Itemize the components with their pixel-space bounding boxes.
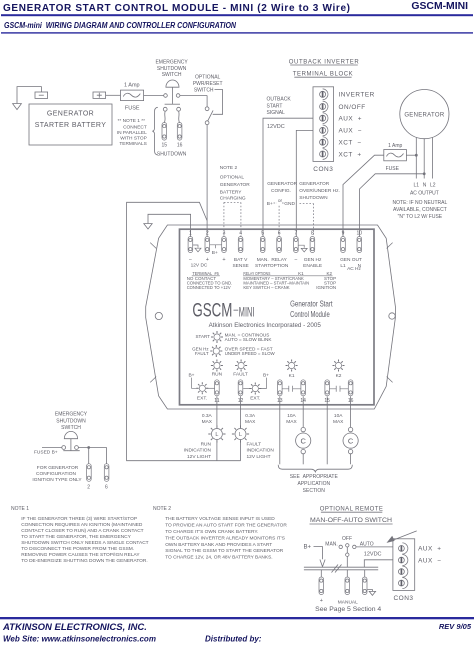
svg-text:KEY SWITCH – CRANK: KEY SWITCH – CRANK [243,285,289,290]
svg-text:SHUTDOWN: SHUTDOWN [157,66,187,72]
wire fuse to emergency shutdown switch [144,95,164,97]
svg-text:AUX +: AUX + [339,116,362,123]
svg-text:1: 1 [189,231,192,237]
K1 led [286,360,298,372]
svg-text:FAULT: FAULT [247,441,262,447]
terminal 12 [238,380,243,396]
left mounting hole [155,312,162,319]
svg-text:MANUAL: MANUAL [338,600,358,606]
svg-text:GSCM-MINI: GSCM-MINI [411,1,468,12]
pin ground symbol [367,590,375,596]
svg-text:−: − [294,258,297,264]
svg-text:TO START THE GENERATOR, THE EM: TO START THE GENERATOR, THE EMERGENCY [21,534,131,540]
svg-text:B+: B+ [267,201,273,207]
svg-text:MAX: MAX [202,419,213,425]
junction dot [87,446,90,449]
svg-text:1 Amp: 1 Amp [388,143,402,149]
svg-text:TO CHARGE 12V, 24, OR 48V BATT: TO CHARGE 12V, 24, OR 48V BATTERY BANKS. [165,555,272,561]
brace see application [278,465,352,472]
junction dot L1/fuse [415,154,418,157]
outback start signal label [267,97,292,116]
svg-text:FUSED B+: FUSED B+ [34,450,58,456]
terminal 14 [301,380,306,396]
dashed ticks around or [274,202,285,204]
svg-text:C: C [300,437,306,446]
svg-text:1 Amp: 1 Amp [124,83,140,89]
svg-text:SECTION: SECTION [303,488,326,494]
fault indication text [247,441,275,460]
svg-text:OPTIONAL REMOTE: OPTIONAL REMOTE [320,507,383,513]
svg-text:CON3: CON3 [393,595,413,602]
terminal 11 [215,380,220,396]
ground bus to terminal 1 [144,214,191,236]
note if no neutral text [393,200,448,220]
K2 led [333,360,345,372]
wiring bus double line [304,565,378,573]
generator output wires L1 N L2 [416,137,432,178]
svg-text:MAX: MAX [333,419,344,425]
terminal 4 [238,237,243,253]
svg-text:CONTACT CLOSER TO RUN) AND A C: CONTACT CLOSER TO RUN) AND A CRANK CONTA… [21,528,143,534]
svg-text:SHUTDOWN: SHUTDOWN [157,151,187,157]
wire terminal 15 down [326,396,328,464]
terminal 3 [222,237,227,253]
terminal pin manual [345,577,350,595]
run indicator lamp L1 [208,425,225,442]
fused B+ wire [42,447,62,449]
svg-text:MAN-OFF-AUTO SWITCH: MAN-OFF-AUTO SWITCH [310,518,392,524]
wire ext led to terminal 11 [206,387,215,389]
svg-text:L1: L1 [340,263,346,269]
svg-text:4: 4 [239,231,242,237]
terminal pin 6 [104,464,109,482]
CON3 pin 6 XCT + [320,151,326,157]
svg-text:5: 5 [261,231,264,237]
svg-text:IN PARALLEL: IN PARALLEL [117,130,147,136]
svg-text:WITH STOP: WITH STOP [120,136,147,142]
svg-text:Control Module: Control Module [290,309,330,319]
svg-text:MAX: MAX [286,419,297,425]
svg-text:EXT.: EXT. [250,396,260,402]
svg-text:OPTION: OPTION [270,263,289,269]
svg-text:L1: L1 [414,183,420,189]
svg-text:16: 16 [177,143,183,149]
CON3 pin 3 AUX + [320,115,326,121]
svg-text:GEN Hz: GEN Hz [304,257,322,263]
svg-text:CONNECTED TO +12V: CONNECTED TO +12V [187,285,231,290]
CON3 pin 2 ON/OFF [320,104,326,110]
svg-text:NOTE 2: NOTE 2 [220,165,238,171]
terminal 7 internal ground [298,245,307,252]
connector CON3 (remote) [393,539,415,591]
terminal 7 [294,237,299,253]
svg-text:NOTE 2: NOTE 2 [153,506,171,512]
svg-text:BATTERY: BATTERY [220,189,242,195]
svg-text:GSCM-mini WIRING DIAGRAM AND: GSCM-mini WIRING DIAGRAM AND CONTROLLER … [4,21,236,30]
svg-text:TO PROVIDE AN AUTO START FOR T: TO PROVIDE AN AUTO START FOR THE GENERAT… [165,523,287,529]
wire N to terminal 10 [360,174,425,237]
svg-text:FAULT: FAULT [195,351,209,356]
relay options table [192,271,332,276]
svg-text:L2: L2 [430,183,436,189]
svg-text:NOTE 1: NOTE 1 [11,506,29,512]
wire fuse to L1 [406,154,416,156]
EXT led (fault) [249,383,261,395]
terminal 5 [260,237,265,253]
generator start control module text [290,299,333,320]
svg-text:GSCM: GSCM [192,300,232,322]
generator G1 [400,90,449,139]
svg-text:TERMINALS: TERMINALS [119,141,146,147]
header rule 2 [1,32,473,33]
connector CON3 (outback) [313,87,334,162]
svg-text:MAN.: MAN. [257,257,269,263]
svg-text:IGNITION TYPE ONLY: IGNITION TYPE ONLY [32,477,82,483]
aux labels [418,546,441,565]
start led legend [196,331,272,343]
svg-text:AC OUTPUT: AC OUTPUT [410,191,439,197]
svg-text:SIGNAL: SIGNAL [267,110,286,116]
svg-text:SHUTDOWN: SHUTDOWN [299,195,328,201]
svg-text:TO DISCONNECT THE POWER FROM T: TO DISCONNECT THE POWER FROM THE GSSM. [21,546,134,552]
terminal 15 [325,380,330,396]
svg-text:N: N [423,183,427,189]
svg-text:Web Site: www.atkinsonelectron: Web Site: www.atkinsonelectronics.com [3,635,156,644]
svg-text:GENERATOR: GENERATOR [220,182,250,188]
GSCM-MINI big title [192,300,254,322]
svg-text:START: START [255,263,270,269]
B+ wire with arrow to bus [314,547,326,567]
svg-text:+: + [206,257,209,263]
svg-text:FUSE: FUSE [386,166,400,172]
terminal 2 [205,237,210,253]
terminal row labels [189,257,298,264]
svg-text:CONNECTION REQUIRES AN IGNITIO: CONNECTION REQUIRES AN IGNITION (MAINTAI… [21,522,143,528]
svg-text:0.3A: 0.3A [202,413,213,419]
svg-text:FOR GENERATOR: FOR GENERATOR [37,465,79,471]
svg-text:INDICATION: INDICATION [184,448,212,454]
svg-text:Atkinson Electronics Incorpora: Atkinson Electronics Incorporated - 2005 [209,323,322,329]
svg-text:12V LIGHT: 12V LIGHT [247,454,271,460]
svg-text:9: 9 [342,231,345,237]
rotary switch S4 man-off-auto [325,536,373,567]
svg-text:OWN BATTERY BANK AND PROVIDES: OWN BATTERY BANK AND PROVIDES A START [165,542,272,548]
svg-text:OUTBACK: OUTBACK [267,97,292,103]
10A max labels [286,413,344,425]
svg-text:OVER/UNDER Hz.: OVER/UNDER Hz. [299,188,340,194]
terminal 6 [277,237,282,253]
svg-text:GEN OUT: GEN OUT [340,257,362,263]
terminal pin + [319,577,324,595]
gen hz fault led legend [192,345,275,357]
B+ internal feed (fault) [259,373,269,389]
svg-text:Distributed by:: Distributed by: [205,635,262,644]
svg-text:OPTIONAL: OPTIONAL [195,74,221,80]
svg-text:EMERGENCY: EMERGENCY [55,412,88,418]
svg-text:3: 3 [223,231,226,237]
svg-text:MAN.: MAN. [325,541,338,547]
fuse F1 1 Amp [121,83,144,112]
fuse F2 1 Amp [384,143,407,172]
svg-text:+: + [222,257,225,263]
svg-text:ENABLE: ENABLE [303,263,322,269]
svg-text:FUSE: FUSE [125,106,140,112]
svg-text:SHUTDOWN: SHUTDOWN [56,418,86,424]
emergency shutdown switch S1 (top) [155,59,188,104]
svg-text:CONNECT: CONNECT [123,125,147,131]
svg-text:Generator Start: Generator Start [290,299,333,309]
svg-text:10A: 10A [334,413,343,419]
terminal pin 2 [87,464,92,482]
svg-text:AUTO = SLOW BLINK: AUTO = SLOW BLINK [225,337,272,342]
outback inverter terminal block title [289,59,360,77]
wire switch to pins 2 and 6 [78,448,106,464]
CON3 remote pin 2 [399,557,405,563]
terminal 9 [341,237,346,253]
svg-text:GENERATOR: GENERATOR [267,181,297,187]
svg-text:IF THE GENERATOR THREE (3) WIR: IF THE GENERATOR THREE (3) WIRE START/ST… [21,516,137,522]
B+ jumper terminals 2-3 [210,245,222,256]
CON3 remote pin 1 [399,546,405,552]
svg-text:TERMINAL BLOCK: TERMINAL BLOCK [293,72,354,78]
svg-text:START: START [196,334,211,339]
see appropriate application section text [290,474,339,494]
generator over/under hz shutdown label [299,181,340,201]
emergency shutdown switch S3 (bottom) [55,412,88,451]
wire terminal 11 to run lamp [216,396,218,428]
header rule 1 [1,14,473,16]
svg-text:OPTIONAL: OPTIONAL [220,175,245,181]
svg-text:PWR/RESET: PWR/RESET [193,81,223,87]
svg-text:GENERATOR START CONTROL MODULE: GENERATOR START CONTROL MODULE - MINI (2… [3,3,350,14]
svg-text:SENSE: SENSE [232,263,248,269]
svg-text:or: or [278,198,283,204]
B+ loop feed wire (left side) [127,202,241,460]
CON3 pin 1 INVERTER [320,91,326,97]
svg-text:"N" TO L2 W/ FUSE: "N" TO L2 W/ FUSE [398,214,443,220]
svg-text:12V LIGHT: 12V LIGHT [187,454,211,460]
svg-text:AUX −: AUX − [339,128,362,135]
svg-text:CHARGING: CHARGING [220,195,246,201]
footer rule [0,617,474,619]
svg-text:TO CHARGE IT'S OWN CRANK BATTE: TO CHARGE IT'S OWN CRANK BATTERY. [165,529,258,535]
fault indicator lamp L2 [232,425,249,442]
right mounting hole [389,313,395,319]
wire terminal 12 to fault lamp [240,396,242,428]
dashed wire hz shutdown to terminal 8 [300,204,314,237]
terminal pin ground [362,577,367,595]
terminal 8 [310,237,315,253]
terminal pin 15 [162,123,167,141]
svg-text:REMOVING POWER CAUSES THE STOP: REMOVING POWER CAUSES THE STOP/IGN RELAY [21,552,140,558]
svg-text:C: C [348,437,354,446]
note 2 optional generator battery charging [220,165,250,201]
svg-text:MAX: MAX [245,419,256,425]
run indication text [184,441,212,460]
terminal numbers 1-10 [189,231,362,237]
svg-text:APPLICATION: APPLICATION [297,481,330,487]
shutdown terminal wires [163,107,180,122]
L1 N L2 labels [410,183,439,197]
svg-text:SWITCH: SWITCH [162,72,182,78]
svg-text:+: + [320,598,323,604]
svg-text:6: 6 [278,231,281,237]
svg-text:2: 2 [206,231,209,237]
svg-text:12VDC: 12VDC [364,551,382,557]
svg-text:8: 8 [311,231,314,237]
svg-text:REV 9/05: REV 9/05 [439,622,472,631]
svg-text:IGNITION: IGNITION [316,285,336,290]
module outer plate [146,225,396,409]
terminal numbers 11-16 [214,398,353,404]
note 1 paragraph [21,516,148,564]
svg-text:10: 10 [357,231,363,237]
svg-text:RUN: RUN [201,441,212,447]
terminal 13 [278,380,283,396]
heading optional remote [310,507,393,525]
bus stubs to pins [321,570,364,577]
dashed wire config to terminal 6 [278,206,280,237]
terminal 1 internal ground [193,245,201,252]
svg-text:UNDER SPEED = SLOW: UNDER SPEED = SLOW [225,351,276,356]
EXT led (run) [196,382,208,394]
svg-text:SIGNAL TO THE GSSM TO START TH: SIGNAL TO THE GSSM TO START THE GENERATO… [165,548,284,554]
ground (battery negative) [13,87,42,110]
wire L1 (fused) to terminal 9 [343,155,384,236]
svg-text:AVAILABLE, CONNECT: AVAILABLE, CONNECT [393,207,447,213]
svg-text:GENERATOR: GENERATOR [404,113,445,119]
wire terminal 16 to contactor [350,396,352,427]
svg-text:SHUTDOWN SWITCH ONLY NEEDS A S: SHUTDOWN SWITCH ONLY NEEDS A SINGLE CONT… [21,540,148,546]
svg-text:12V DC: 12V DC [191,263,208,269]
B+ internal feed (run) [188,373,198,389]
wire pwr/reset to terminal 2 [206,125,208,237]
svg-text:12VDC: 12VDC [267,124,285,130]
svg-text:TO DE-ENERGIZE SHUTTING DOWN T: TO DE-ENERGIZE SHUTTING DOWN THE GENERAT… [21,558,148,564]
svg-text:EXT.: EXT. [197,396,207,402]
svg-text:RELAY: RELAY [271,257,287,263]
terminal pin 16 [177,123,182,141]
note 2 paragraph [165,516,287,560]
svg-text:GENERATOR: GENERATOR [299,181,329,187]
K1 relay contact [282,386,301,392]
svg-text:** NOTE 1 **: ** NOTE 1 ** [118,118,146,124]
generator config label [267,181,298,207]
wire auto contact to CON3 aux+ [356,546,393,548]
wire AUX+ to terminal 5 [263,118,313,236]
lamp return wires to B+ loop [217,440,241,461]
svg-text:THE BATTERY VOLTAGE SENSE INPU: THE BATTERY VOLTAGE SENSE INPUT IS USED [165,516,275,522]
svg-text:RUN: RUN [212,371,223,377]
svg-text:NOTE: IF NO NEUTRAL: NOTE: IF NO NEUTRAL [393,200,448,206]
svg-text:2: 2 [87,484,90,490]
brace for shutdown terminals [152,107,157,155]
svg-text:6: 6 [105,484,108,490]
dashed wires battery charging to terminals 3,4 [224,202,241,236]
svg-text:See Page 5 Section 4: See Page 5 Section 4 [315,607,382,613]
FAULT led [235,360,247,372]
wire terminal 14 to contactor [302,396,304,427]
svg-text:OFF: OFF [342,536,352,542]
svg-text:ATKINSON ELECTRONICS, INC.: ATKINSON ELECTRONICS, INC. [2,622,147,633]
svg-text:SWITCH: SWITCH [194,88,214,94]
svg-text:XCT −: XCT − [339,140,362,147]
svg-text:CON3: CON3 [313,166,333,173]
contactor C2 [343,427,358,464]
wire AUX- to terminal 7 [296,130,313,236]
svg-text:10A: 10A [287,413,296,419]
wire CON3 aux- to bus [364,560,393,567]
svg-text:XCT +: XCT + [339,151,362,158]
svg-text:CONFIG.: CONFIG. [271,188,291,194]
svg-text:GENERATOR: GENERATOR [47,111,94,118]
CON3 pin 5 XCT - [320,139,326,145]
K2 relay contact [330,386,349,392]
wire emergency switch to pwr/reset switch [180,95,207,97]
svg-text:FAULT: FAULT [233,371,248,377]
optional pwr/reset switch S2 [193,74,223,124]
module inner box [180,229,375,405]
CON3 remote pin 4 [399,580,405,586]
svg-text:0.3A: 0.3A [245,413,256,419]
svg-text:7: 7 [295,231,298,237]
terminal 1 [188,237,193,253]
svg-text:SWITCH: SWITCH [61,425,81,431]
battery positive terminal [93,92,106,98]
CON3 pointer arrow [387,531,417,543]
wire terminal 12 to ext led [243,388,252,390]
svg-text:15: 15 [162,143,168,149]
CON3 pin 4 AUX - [320,127,326,133]
svg-text:THE OUTBACK INVERTER ALREADY M: THE OUTBACK INVERTER ALREADY MONITORS IT… [165,535,285,541]
svg-text:L: L [239,432,242,438]
svg-text:OUTBACK INVERTER: OUTBACK INVERTER [289,59,360,65]
svg-text:AC Hz: AC Hz [347,266,361,272]
svg-text:B+: B+ [212,250,218,256]
svg-text:AUX −: AUX − [418,558,441,565]
svg-text:L: L [215,432,218,438]
RUN led [211,360,223,372]
contactor C1 [296,427,311,464]
svg-text:ON/OFF: ON/OFF [339,104,366,111]
svg-text:K2: K2 [336,373,342,379]
0.3A max labels [202,413,257,425]
for generator configuration text [32,465,82,483]
svg-text:B+: B+ [304,545,312,551]
svg-text:EMERGENCY: EMERGENCY [155,59,188,65]
svg-text:INVERTER: INVERTER [339,92,375,99]
battery GENERATOR STARTER BATTERY [29,104,112,145]
CON3 remote pin 3 [399,569,405,575]
svg-text:CONFIGURATION: CONFIGURATION [36,471,76,477]
svg-text:K1: K1 [289,373,295,379]
svg-text:GND: GND [284,201,295,207]
svg-text:INDICATION: INDICATION [247,448,275,454]
svg-text:AUX +: AUX + [418,546,441,553]
note 1 connect in parallel text [117,118,147,147]
terminal 10 [357,237,362,253]
svg-text:−: − [189,257,192,263]
svg-text:MINI: MINI [239,304,255,320]
wire battery + to fuse F1 [106,94,121,96]
battery negative terminal [35,92,48,98]
svg-text:BAT V: BAT V [234,257,248,263]
svg-text:START: START [267,103,283,109]
svg-text:STARTER BATTERY: STARTER BATTERY [35,122,107,129]
pin labels [339,92,375,159]
junction dot N [423,172,426,175]
svg-text:SEE APPROPRIATE: SEE APPROPRIATE [290,474,339,480]
